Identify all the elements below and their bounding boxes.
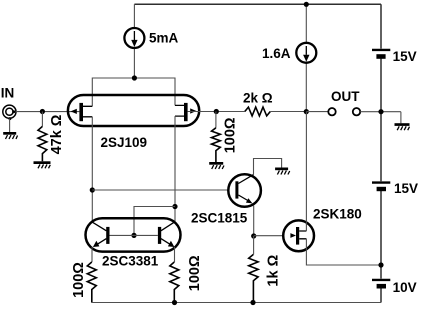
node IN/47k junction — [40, 109, 45, 114]
wire base 2SC1815 — [92, 189, 228, 191]
wire left drain down — [91, 117, 93, 222]
terminal OUT left — [328, 108, 335, 115]
dual transistor 2SC3381 package — [86, 218, 181, 251]
svg-text:IN: IN — [1, 85, 15, 100]
resistor R 1k — [249, 254, 258, 302]
svg-text:100Ω: 100Ω — [187, 255, 203, 291]
svg-text:100Ω: 100Ω — [71, 262, 87, 298]
JFET 2SJ109 left half — [71, 103, 93, 121]
wire right rail x=381 — [380, 4, 382, 302]
node feedback — [214, 109, 219, 114]
wire IN ground stub — [9, 119, 11, 132]
wire 2SC1815 collector to ground — [254, 159, 282, 175]
current source 5mA — [124, 28, 144, 48]
svg-text:10V: 10V — [393, 280, 417, 295]
wire 2k to out node — [270, 111, 306, 113]
node right drain junction — [172, 204, 177, 209]
node left drain / base of 2SC1815 — [90, 187, 95, 192]
transistor 2SC3381 left half — [92, 222, 110, 247]
svg-text:2SC3381: 2SC3381 — [102, 254, 159, 269]
wire out right to rail — [360, 112, 401, 124]
node battery junction — [378, 262, 383, 267]
node OUT column — [304, 109, 309, 114]
transistor 2SC3381 right half — [158, 222, 175, 247]
ground 2SC1815 collector — [275, 168, 290, 175]
ground under feedback 100 — [209, 162, 224, 169]
node bottom 1k — [250, 300, 255, 305]
svg-text:47k Ω: 47k Ω — [49, 114, 65, 154]
wire IN to gate — [16, 111, 79, 113]
svg-text:2SJ109: 2SJ109 — [101, 135, 148, 150]
battery B1 15V — [372, 50, 390, 59]
battery B2 15V — [372, 183, 390, 192]
dual JFET 2SJ109 package — [68, 95, 199, 126]
resistor R 100 left — [87, 262, 96, 303]
wire mirror base bar — [110, 234, 158, 236]
terminal OUT right — [353, 108, 360, 115]
wire 1k top — [253, 236, 255, 254]
wire mirror base link — [134, 207, 175, 236]
node emitter/gate/1k — [251, 233, 256, 238]
node out/battery — [378, 109, 383, 114]
wire sources rail y=78 — [92, 78, 175, 106]
wire right drain down — [174, 116, 176, 222]
node source junction — [132, 75, 137, 80]
svg-text:1.6A: 1.6A — [262, 46, 291, 61]
wire right gate to feedback node — [188, 111, 245, 113]
wire left emitter to resistor — [91, 247, 93, 262]
wire out node to terminal — [306, 111, 328, 113]
wire 5mA drop — [133, 4, 135, 78]
wire 2SK180 source to battery junction — [306, 239, 381, 265]
wire 1.6A drop — [305, 4, 307, 111]
node bottom 100 right — [172, 300, 177, 305]
wire top rail — [134, 3, 381, 5]
svg-text:15V: 15V — [393, 49, 417, 64]
svg-text:OUT: OUT — [331, 89, 360, 104]
wire bottom rail — [92, 302, 382, 304]
transistor 2SK180 — [283, 220, 314, 251]
svg-text:2k Ω: 2k Ω — [243, 91, 273, 106]
wire 2SK180 drain up — [305, 112, 307, 231]
ground at OUT — [395, 123, 410, 130]
JFET 2SJ109 right half — [175, 103, 196, 121]
resistor R 2k — [245, 107, 270, 116]
current source 1.6A — [296, 43, 316, 63]
node mirror bases — [131, 233, 136, 238]
svg-text:2SC1815: 2SC1815 — [191, 211, 248, 226]
wire right emitter to resistor — [174, 247, 176, 262]
svg-text:1k Ω: 1k Ω — [266, 254, 282, 286]
resistor R 100 feedback — [215, 112, 217, 128]
svg-text:15V: 15V — [394, 181, 418, 196]
svg-text:100Ω: 100Ω — [223, 117, 239, 153]
ground under IN — [3, 132, 17, 139]
terminal IN — [3, 105, 16, 120]
ground under 47k — [34, 161, 51, 168]
transistor 2SC1815 — [228, 174, 261, 207]
svg-text:2SK180: 2SK180 — [313, 207, 362, 222]
svg-text:5mA: 5mA — [149, 30, 179, 45]
resistor R 47k — [41, 112, 43, 127]
resistor R 100 right — [170, 262, 179, 303]
node top rail junction — [304, 2, 309, 7]
wire 2SC1815 emitter down — [253, 206, 255, 237]
battery B3 10V — [372, 280, 390, 289]
wire gate 2SK180 — [254, 235, 291, 237]
